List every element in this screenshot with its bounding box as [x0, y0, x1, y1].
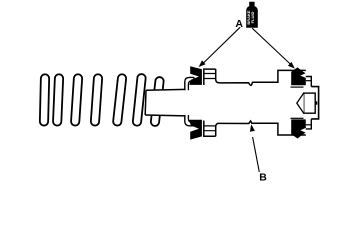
groove land lines bottom	[204, 126, 216, 131]
collar right stub bottom	[193, 121, 195, 126]
svg-text:B: B	[259, 172, 267, 184]
spring coil 5	[113, 74, 126, 125]
seal backup washer bottom	[306, 119, 312, 129]
spring coil 4	[91, 74, 102, 125]
collar elbow bottom outer	[185, 115, 194, 126]
arrowhead A left	[199, 60, 206, 67]
cup seal bottom-left (A)	[189, 120, 202, 140]
collar elbow top outer	[185, 77, 194, 90]
piston body top edge with break tick	[219, 70, 306, 85]
collar right stub top	[193, 77, 195, 82]
arrow B to piston body	[253, 137, 260, 172]
piston silhouette fill	[204, 69, 319, 136]
spring retainer body fill	[145, 90, 189, 116]
retainer bottom edge	[145, 114, 185, 117]
seal groove floor line top-right	[291, 86, 304, 88]
piston groove block bottom (left land)	[204, 121, 216, 137]
arrow A to left seal	[202, 27, 241, 65]
brake fluid bottle icon	[246, 2, 258, 28]
collar elbow top inner	[188, 81, 194, 90]
piston groove block top (left land)	[204, 69, 216, 85]
spring coil 3	[71, 74, 82, 125]
arrowhead B	[250, 124, 255, 132]
retainer top edge	[146, 88, 186, 91]
piston end box	[311, 87, 318, 119]
seal groove floor line bottom-right	[291, 117, 304, 119]
flange right edge + fillet top	[216, 69, 220, 83]
seal backup washer top	[306, 77, 312, 87]
spring coil 1	[40, 74, 49, 125]
spring coil 2	[53, 74, 63, 125]
pushrod seat nub	[315, 101, 318, 104]
arrowhead A right	[288, 62, 295, 69]
spring coil 6	[133, 74, 146, 126]
collar elbow bottom inner	[188, 115, 194, 122]
arrow A to right seal	[252, 28, 291, 65]
retainer left edge	[144, 90, 147, 115]
svg-text:FLUID: FLUID	[250, 12, 255, 24]
pushrod seat recess rectangle	[304, 93, 316, 113]
cup seal top-right (A)	[291, 67, 306, 85]
spring coil 7 (partially hidden behind retainer)	[151, 77, 164, 126]
pushrod seat cone	[297, 93, 304, 113]
washer inner line top	[306, 80, 312, 82]
flange right edge + fillet bottom	[216, 123, 220, 136]
washer inner line bottom	[306, 124, 312, 126]
piston body bottom edge with break tick	[219, 121, 306, 135]
groove land lines top	[204, 74, 216, 79]
cup seal top-left (A)	[189, 66, 202, 85]
cup seal bottom-right (A)	[291, 119, 306, 138]
